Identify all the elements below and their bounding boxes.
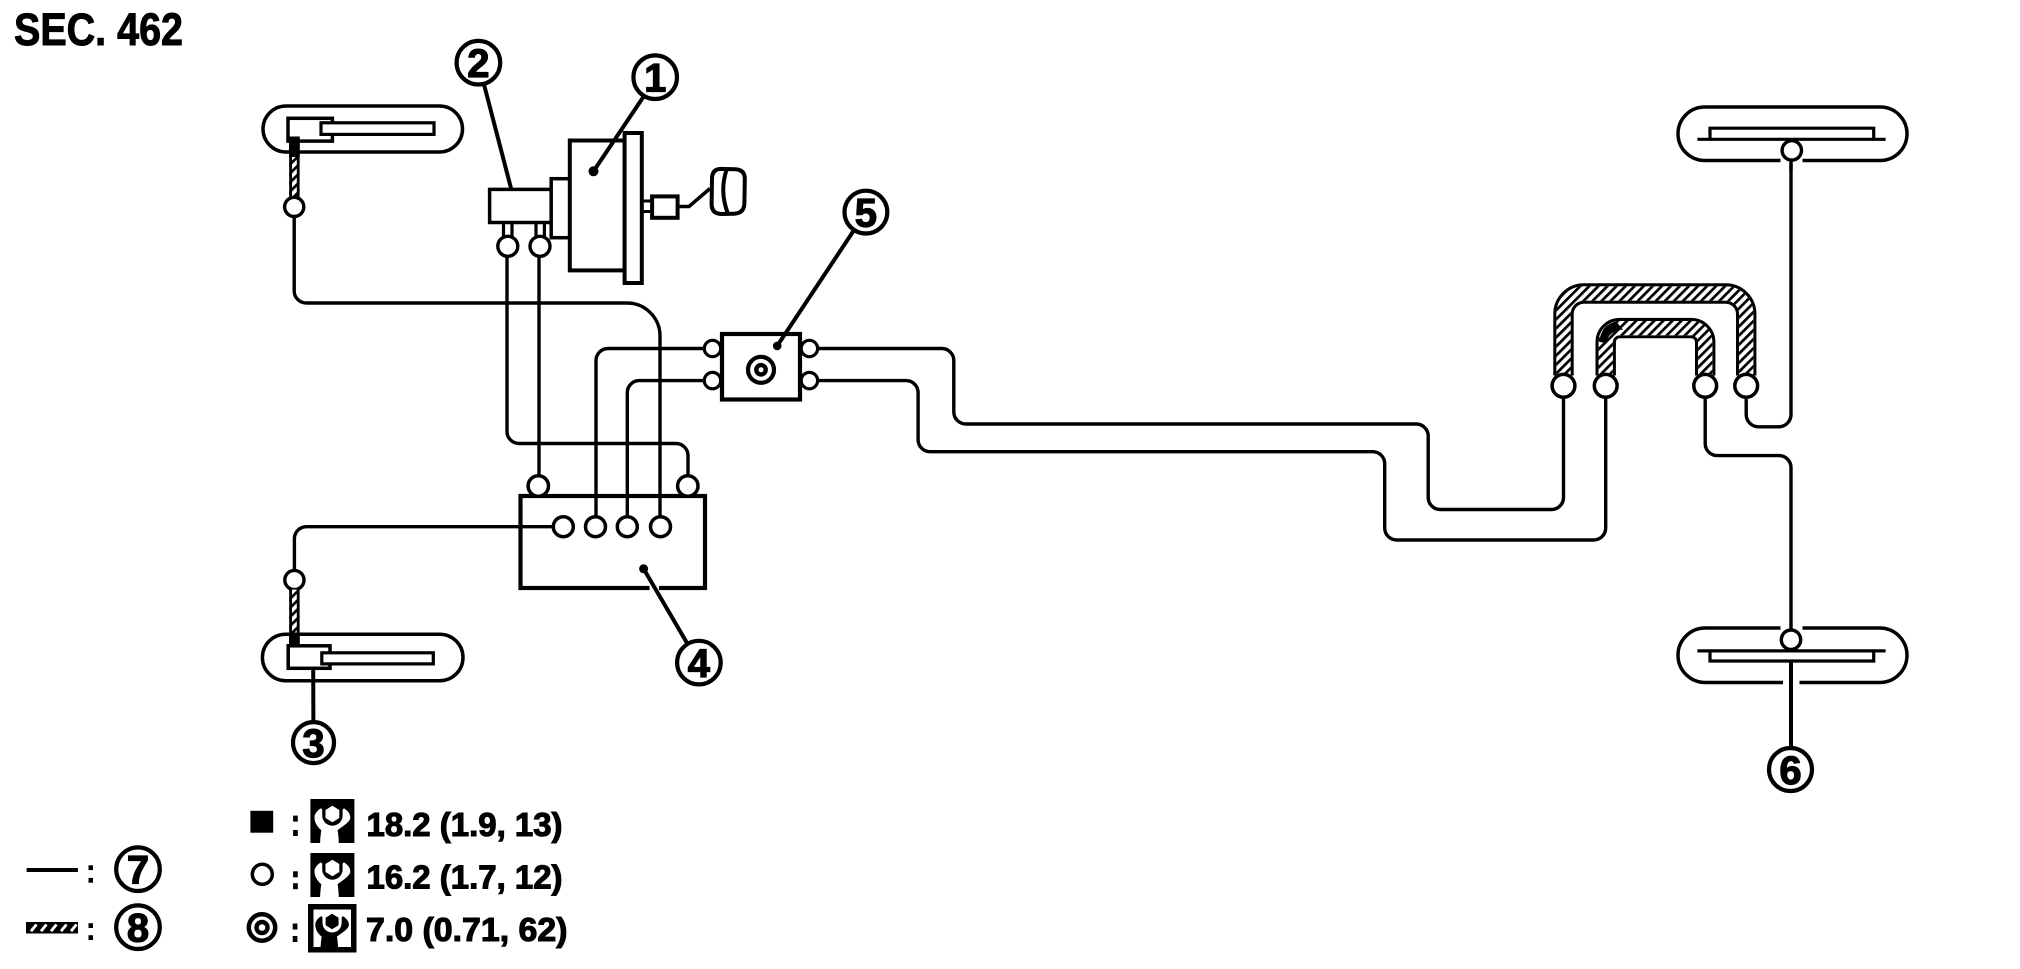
actuator port 1: [553, 517, 573, 537]
gap in wheel outline top: [1781, 625, 1803, 633]
connector center bolt outer: [748, 357, 774, 383]
master cylinder right flare nut: [530, 236, 550, 256]
torque wrench icon row 1: [310, 799, 354, 843]
adapter spacer: [551, 179, 570, 238]
svg-text:1: 1: [644, 57, 666, 101]
connector / junction block (5): [704, 334, 817, 400]
connector port right-top: [801, 340, 817, 356]
legend row 3: double circle symbol: [249, 914, 275, 940]
rear hose flare nut inner-left: [1594, 374, 1617, 397]
callout 2 (master cylinder): [457, 41, 512, 190]
connector port left-top: [704, 340, 720, 356]
front-right pipe stub: [1789, 157, 1792, 170]
legend row 1: filled square symbol: [250, 811, 273, 833]
wire: connector left-bottom pipe to actuator port 3: [627, 381, 704, 517]
rear hose flare nut outer-right: [1735, 374, 1758, 397]
rear-left caliper: [288, 646, 330, 669]
rear hatched hose inner U (8): [1606, 328, 1706, 375]
svg-text:3: 3: [302, 722, 324, 766]
wire: rear-left brake pipe (wheel 3 to actuator port 1): [294, 527, 553, 571]
front-right wheel port: [1782, 141, 1801, 160]
callout 3 (rear-left wheel cylinder): [293, 668, 334, 766]
wire: rear pipe inner-right to rear-right wheel: [1705, 397, 1791, 630]
gap in wheel outline bottom: [1783, 680, 1800, 688]
wire: connector left-top pipe to actuator port 2: [596, 349, 704, 517]
front-left rotor bar: [321, 123, 434, 135]
wire: master cylinder primary pipe (left port to actuator top-right): [507, 257, 688, 476]
front-left wheel outline: [263, 106, 463, 152]
rear-left hose solid section: [289, 633, 300, 647]
rear-right wheel outline: [1678, 628, 1907, 683]
rear hose flare nut inner-right: [1694, 374, 1717, 397]
legend: plain line symbol: [27, 868, 78, 872]
svg-text:7: 7: [127, 849, 149, 893]
wire: rear pipe outer-right U-bend to front-right wheel: [1746, 160, 1791, 427]
svg-text:SEC. 462: SEC. 462: [14, 4, 183, 55]
callout 4 (ABS actuator): [639, 564, 721, 686]
legend: colon row 8: [89, 923, 94, 928]
svg-text:7.0 (0.71, 62): 7.0 (0.71, 62): [366, 911, 568, 948]
rear hatched hose outer U (8): [1563, 294, 1746, 376]
rear hose flare nut outer-left: [1552, 374, 1575, 397]
master cylinder body (2): [490, 189, 552, 222]
svg-text:8: 8: [127, 907, 149, 951]
wire: front-left brake pipe (wheel 1 to actuator port 4): [294, 217, 660, 517]
callout 6 (rear-right wheel): [1769, 748, 1812, 793]
svg-text:16.2 (1.7, 12): 16.2 (1.7, 12): [367, 858, 563, 895]
actuator top port left: [528, 476, 548, 496]
svg-text:4: 4: [688, 642, 711, 686]
rear-right pipe into wheel: [1789, 624, 1792, 630]
wire: connector right-top pipe to rear hose outer-left: [818, 349, 1564, 510]
legend row 1 colon: [293, 816, 298, 822]
actuator body: [521, 496, 706, 588]
torque wrench icon row 3 (outlined): [308, 904, 357, 953]
front-left hose solid section: [289, 137, 300, 158]
rear-right wheel port: [1781, 630, 1800, 649]
gap in wheel outline: [1781, 157, 1803, 165]
legend: [26, 799, 568, 953]
pushrod to pedal: [678, 189, 710, 207]
rear-left wheel outline: [262, 634, 463, 681]
connector center bolt inner: [756, 365, 765, 374]
actuator port 3: [617, 517, 637, 537]
rear-left hose flare nut: [285, 570, 304, 589]
connector port left-bottom: [704, 372, 720, 388]
actuator port 4: [651, 517, 671, 537]
actuator top port right: [678, 476, 698, 496]
front-left hose flare nut: [285, 197, 304, 216]
inner hose corner shading: [1600, 322, 1624, 344]
connector port right-bottom: [801, 372, 817, 388]
wheel assembly: front right: [1678, 107, 1907, 170]
wheel cylinder assembly: front left wheel: [263, 106, 463, 216]
svg-text:2: 2: [467, 42, 489, 86]
brake pedal pad inner arc: [723, 170, 727, 213]
wire: connector right-bottom pipe to rear hose inner-left: [818, 381, 1606, 540]
front-right wheel outline: [1678, 107, 1907, 161]
booster back plate: [625, 133, 642, 283]
rear-left rotor bar: [322, 653, 434, 664]
svg-text:18.2 (1.9, 13): 18.2 (1.9, 13): [367, 806, 563, 843]
legend row 3 colon: [293, 924, 298, 930]
ABS actuator unit (4): [521, 476, 706, 588]
callout 1 (brake booster): [589, 55, 678, 176]
torque wrench icon row 2: [310, 853, 354, 897]
leader line to callout 6: [1789, 661, 1793, 748]
front-right drum bar: [1697, 128, 1885, 139]
svg-text:6: 6: [1779, 749, 1801, 793]
booster output stub: [642, 200, 652, 203]
legend row 2: open circle symbol: [252, 864, 272, 884]
master cylinder left flare nut: [498, 236, 518, 256]
wheel assembly: rear right: [1678, 624, 1907, 748]
rear-right drum bar: [1697, 651, 1885, 661]
master cylinder and brake booster assembly: [490, 133, 745, 283]
legend: colon row 7: [89, 865, 94, 870]
wheel cylinder assembly: rear left wheel: [262, 570, 463, 680]
callout 7 (brake pipe): [116, 847, 160, 891]
wire: master cylinder secondary pipe (right port to actuator top-left): [537, 257, 540, 476]
pushrod clevis block: [652, 196, 678, 217]
svg-text:5: 5: [855, 191, 877, 235]
callout 5 (connector): [773, 191, 887, 351]
master cylinder port stems: [502, 223, 505, 238]
brake booster body (1): [570, 141, 625, 271]
rear-left hose hatched section: [289, 590, 299, 633]
connector body: [722, 334, 800, 400]
front-left caliper: [288, 118, 332, 141]
callout 8 (brake hose): [116, 905, 160, 949]
legend row 2 colon: [293, 871, 298, 877]
brake pedal pad: [712, 169, 745, 214]
actuator port 2: [586, 517, 606, 537]
legend: hatched hose symbol: [26, 922, 78, 934]
rear-left hose solid section overlap: [289, 636, 300, 647]
front-left hose hatched section: [289, 157, 299, 198]
